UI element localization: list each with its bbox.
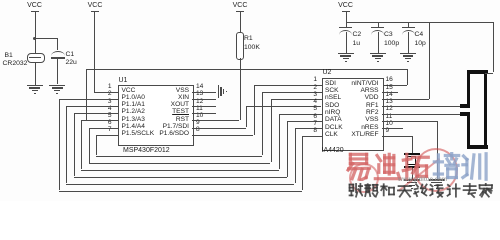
pin number 1: [313, 77, 317, 84]
pin label XIN U1-13: [178, 95, 189, 102]
pin label P1.3/A3 U1-5: [122, 117, 145, 124]
wire decoupling rail: [346, 22, 494, 23]
wire bus run: [89, 163, 271, 164]
ground: [49, 85, 65, 86]
pin number 16: [386, 77, 393, 84]
pin number 6: [313, 114, 317, 121]
pin label RST U1-10: [176, 117, 189, 124]
pin number 11: [386, 114, 393, 121]
wire bus run: [59, 191, 302, 192]
wire antenna to rail: [493, 22, 494, 72]
wire U1 pin3 to bus: [66, 106, 118, 107]
pin number 9: [386, 128, 390, 135]
wire stub TEST: [192, 113, 215, 114]
label IA4420: [322, 147, 344, 154]
ground crystal: [404, 179, 420, 180]
wire VSS down: [382, 121, 437, 122]
pin label DATA U2-6: [325, 117, 342, 124]
label U2: [323, 69, 332, 76]
label C1: [66, 51, 75, 58]
pin number 8: [313, 128, 317, 135]
pin label TEST U1-11: [172, 109, 189, 116]
pin number 3: [108, 99, 112, 106]
pin number 15: [386, 85, 393, 92]
wire U1 pin2 to bus: [59, 99, 118, 100]
pin label VSS U1-14: [176, 88, 189, 95]
pin label SCK U2-2: [325, 88, 339, 95]
label C3: [384, 31, 393, 38]
label U1: [119, 77, 128, 84]
pin label XTL/REF U2-9: [351, 132, 378, 139]
pin label P1.2/A2 U1-4: [122, 109, 145, 116]
pin label P1.4/A4 U1-6: [122, 124, 145, 131]
pin number 6: [108, 120, 112, 127]
wire: [35, 38, 58, 39]
ground U2 VSS: [429, 179, 445, 180]
power VCC net 2 (U1 supply): [88, 2, 103, 9]
resistor R1: [236, 32, 243, 60]
wire U1 pin8 to U2 SDI: [192, 135, 253, 136]
pin label P1.7/SDI U1-9: [163, 124, 189, 131]
wire bus run: [66, 184, 294, 185]
wire U1 pin1 VCC: [94, 92, 118, 93]
pin label nINT/VDI U2-16: [351, 81, 378, 88]
wire: [35, 12, 36, 53]
pin number 14: [386, 92, 393, 99]
label C4: [415, 31, 424, 38]
wire: [414, 148, 458, 192]
pin label VSS U2-11: [365, 117, 378, 124]
capacitor C2: [346, 22, 347, 27]
wire U1 VSS pin14: [192, 92, 216, 93]
pin number 1: [108, 84, 112, 91]
wire: [346, 12, 347, 23]
pin number 10: [386, 121, 393, 128]
pin number 2: [313, 85, 317, 92]
wire U1 pin4 to bus: [74, 113, 118, 114]
wire U1 pin9 to U2 SDO: [192, 128, 246, 129]
pin number 14: [196, 84, 203, 91]
pin number 7: [313, 121, 317, 128]
label 10p: [415, 40, 426, 47]
wire bus run: [74, 177, 287, 178]
wire stub ARSS: [382, 92, 399, 93]
ground: [27, 85, 43, 86]
pin label nRES U2-10: [361, 125, 378, 132]
wire RST to R1 net: [192, 120, 239, 121]
wire: [240, 58, 241, 69]
ground U1 VSS: [218, 85, 219, 98]
node battery/C1 junction: [33, 37, 36, 40]
wire U1 pin5 to bus: [81, 120, 118, 121]
label 22u: [66, 59, 77, 66]
wire: [240, 12, 241, 33]
label watermark slogan: [348, 183, 364, 199]
antenna feed stub RF2: [460, 112, 468, 116]
wire: [94, 12, 95, 92]
pin number 9: [196, 120, 200, 127]
wire XTL to crystal: [382, 136, 413, 137]
power VCC net 1 (battery): [27, 2, 42, 9]
capacitor C4: [408, 22, 409, 27]
pin number 2: [108, 91, 112, 98]
pin label VCC U1-1: [122, 88, 136, 95]
pin label RF1 U2-13: [366, 103, 378, 110]
label R1: [244, 35, 253, 42]
label B1: [5, 52, 13, 59]
label watermark yiditu brand: [344, 152, 373, 181]
pin label P1.6/SDO U1-8: [159, 131, 189, 138]
pin label DCLK U2-7: [325, 125, 343, 132]
label CR2032: [3, 60, 28, 67]
capacitor C3: [378, 22, 379, 27]
wire VDD to rail: [382, 99, 430, 100]
power VCC net 4 (decoupling rail): [338, 2, 353, 9]
wire stub XIN: [192, 99, 215, 100]
pin label P1.0/A0 U1-2: [122, 95, 145, 102]
pin number 3: [313, 92, 317, 99]
pin label P1.5/SCLK U1-7: [122, 131, 155, 138]
pin number 4: [313, 99, 317, 106]
ground: [338, 53, 354, 54]
pin number 11: [196, 106, 203, 113]
wire U1 pin7 to bus: [96, 135, 118, 136]
pin number 5: [313, 106, 317, 113]
pin label RF2 U2-12: [366, 110, 378, 117]
pin label SDO U2-4: [325, 103, 339, 110]
wire rail to U2 pin16: [407, 69, 408, 85]
label MSP430F2012: [123, 147, 170, 154]
label 100p: [384, 40, 399, 47]
pin label XOUT U1-12: [171, 102, 189, 109]
label 1u: [353, 40, 361, 47]
crystal Y1: [404, 153, 420, 155]
pin label nSEL U2-3: [325, 95, 341, 102]
battery B1 CR2032: [27, 53, 45, 64]
pin number 7: [108, 127, 112, 134]
antenna loop: [467, 70, 488, 74]
pin number 4: [108, 106, 112, 113]
wire stub nRES: [382, 128, 404, 129]
wire bus run: [81, 170, 279, 171]
pin number 12: [386, 106, 393, 113]
power VCC net 3 (R1 pull-up): [233, 2, 248, 9]
pin number 8: [196, 127, 200, 134]
op-amp U2 box: [322, 78, 384, 151]
wire RF2: [382, 114, 461, 115]
pin label VDD U2-14: [365, 95, 379, 102]
pin label P1.1/A1 U1-3: [122, 102, 145, 109]
pin label nIRQ U2-5: [325, 110, 340, 117]
wire RF1: [382, 106, 461, 107]
pin label SDI U2-1: [325, 81, 336, 88]
label C2: [353, 31, 362, 38]
capacitor C1: [57, 38, 58, 50]
wire bus run: [96, 156, 262, 157]
label 100K: [244, 44, 260, 51]
pin number 12: [196, 99, 203, 106]
label watermark url: [398, 177, 447, 183]
pin number 13: [196, 91, 203, 98]
ground: [370, 53, 386, 54]
pin number 10: [196, 113, 203, 120]
pin label ARSS U2-15: [361, 88, 379, 95]
wire stub XOUT: [192, 106, 215, 107]
pin number 5: [108, 113, 112, 120]
pin number 13: [386, 99, 393, 106]
ground: [400, 53, 416, 54]
op-amp U1 box: [118, 85, 194, 147]
wire U1 pin6 to bus: [89, 128, 118, 129]
antenna feed stub RF1: [460, 104, 468, 108]
wire: [35, 62, 36, 85]
pin label CLK U2-8: [325, 132, 338, 139]
wire interrupt rail: [86, 69, 407, 70]
